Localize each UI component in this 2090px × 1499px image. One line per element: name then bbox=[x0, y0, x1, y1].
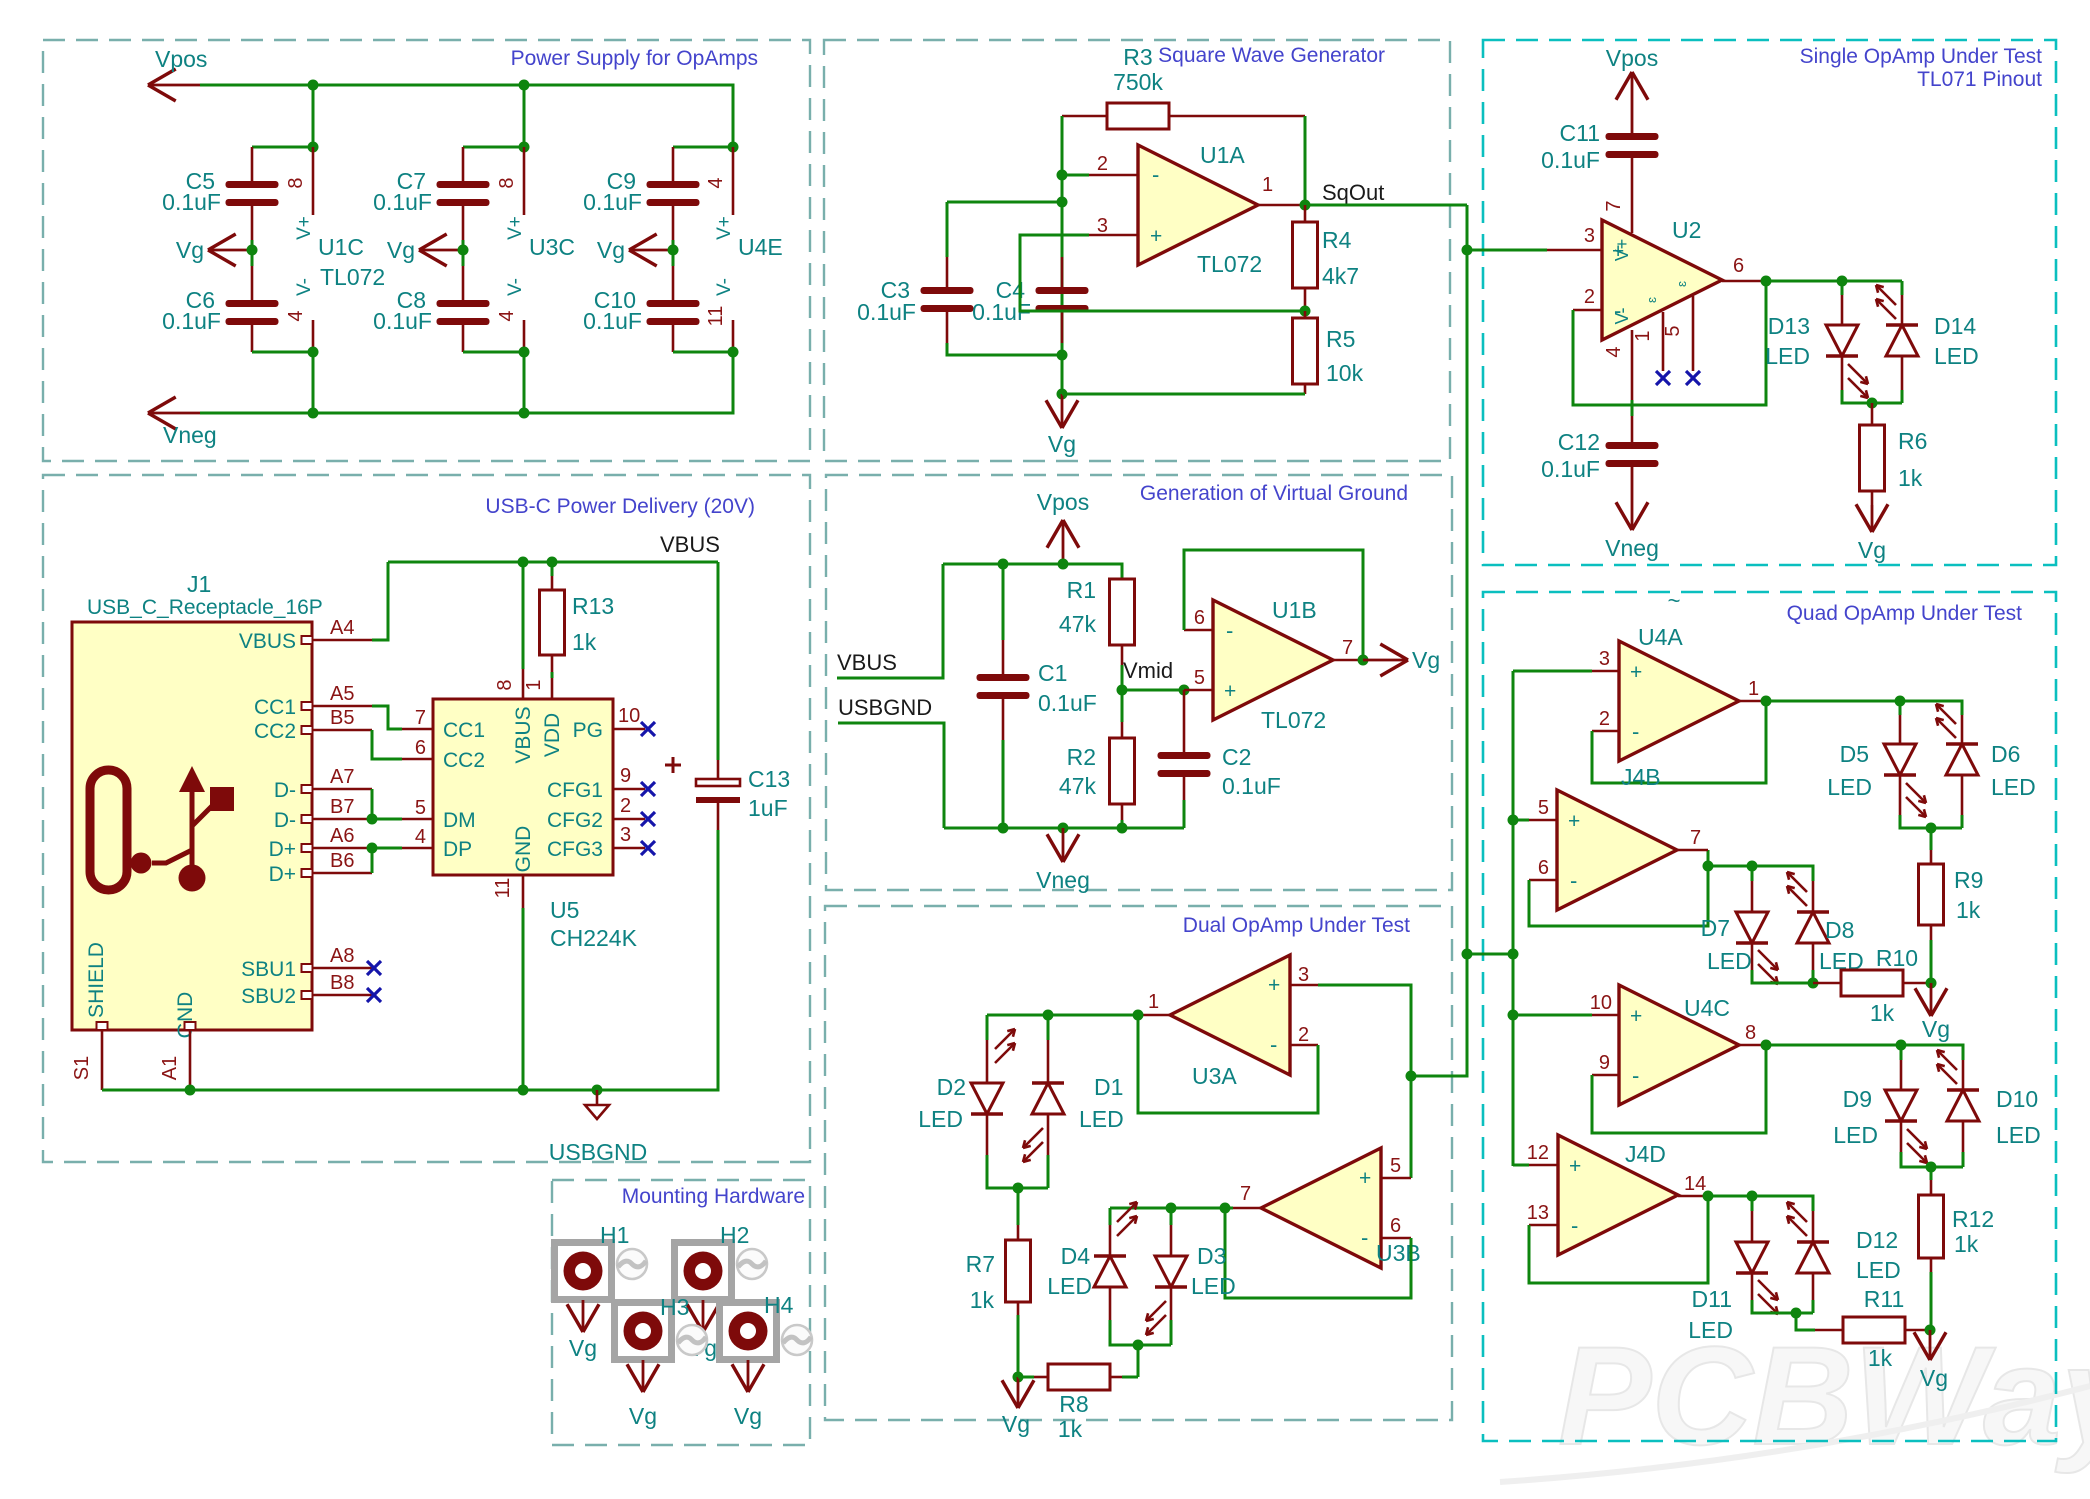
svg-text:7: 7 bbox=[1342, 637, 1353, 659]
pin 8 U4C bbox=[1737, 1022, 1766, 1045]
pin label A6 bbox=[330, 825, 354, 847]
power symbol Vpos (left arrow) bbox=[148, 69, 200, 101]
LED D9 arrows bbox=[1907, 1129, 1927, 1163]
capacitor C8 bbox=[437, 300, 490, 325]
svg-text:Vg: Vg bbox=[176, 237, 204, 263]
pin 4 (V+) U4E bbox=[705, 147, 733, 215]
LED D4 bbox=[1094, 1208, 1126, 1287]
label C11 bbox=[1560, 120, 1601, 146]
svg-text:CC1: CC1 bbox=[254, 696, 296, 719]
svg-text:Mounting Hardware: Mounting Hardware bbox=[622, 1185, 805, 1208]
wire tee to quad vertical bbox=[1467, 953, 1513, 956]
power symbol Vg quad-mid (down arrow) bbox=[1915, 983, 1947, 1016]
svg-text:4: 4 bbox=[415, 826, 426, 848]
capacitor C5 bbox=[226, 147, 279, 206]
junction (1796,1313) bbox=[1791, 1308, 1802, 1319]
pin 1 U2 (offset null) bbox=[1632, 312, 1663, 371]
svg-text:Vneg: Vneg bbox=[163, 422, 217, 448]
svg-text:U1B: U1B bbox=[1272, 597, 1317, 623]
wire pin10 U4C bbox=[1513, 1014, 1619, 1017]
junction (1813,983) bbox=[1808, 978, 1819, 989]
pin 2 U3A bbox=[1290, 1024, 1318, 1046]
svg-text:LED: LED bbox=[1688, 1317, 1733, 1343]
label R10 bbox=[1876, 945, 1918, 971]
pin 3 U2 bbox=[1584, 225, 1595, 247]
junction (673,250) bbox=[668, 245, 679, 256]
wire U5 VBUS drop bbox=[522, 562, 525, 669]
LED D14 bbox=[1886, 295, 1918, 356]
label Vg col2 bbox=[387, 237, 415, 263]
junction (1766,701) bbox=[1761, 696, 1772, 707]
section title: Quad OpAmp Under Test bbox=[1787, 602, 2023, 625]
pin 7 U5 bbox=[415, 707, 426, 729]
section box: USB-C Power Delivery bbox=[43, 475, 810, 1162]
pin A1 (GND) J1 bbox=[159, 1022, 196, 1090]
capacitor C11 bbox=[1606, 133, 1659, 233]
opamp plus U4B bbox=[1568, 810, 1580, 833]
reference U3B bbox=[1376, 1240, 1421, 1266]
op-amp U3B bbox=[1261, 1148, 1381, 1268]
svg-text:H4: H4 bbox=[764, 1292, 794, 1318]
svg-text:J1: J1 bbox=[187, 571, 211, 597]
junction (1872,403) bbox=[1867, 398, 1878, 409]
LED D5 bbox=[1884, 701, 1916, 775]
svg-text:5: 5 bbox=[1538, 797, 1549, 819]
pin 8 (V+) U1C bbox=[285, 147, 313, 215]
opamp minus U4B bbox=[1570, 868, 1577, 893]
svg-text:Single OpAmp Under Test: Single OpAmp Under Test bbox=[1800, 45, 2043, 68]
wire R3 right vertical bbox=[1304, 116, 1307, 205]
value 1k (R11) bbox=[1868, 1345, 1893, 1371]
wire GND drop U5 bbox=[522, 908, 525, 1090]
svg-text:V-: V- bbox=[714, 278, 735, 296]
junction (1122,828) bbox=[1117, 823, 1128, 834]
pin 4 U2 bbox=[1603, 330, 1632, 400]
pin A5 (CC1) J1 bbox=[302, 702, 373, 710]
svg-text:Vg: Vg bbox=[734, 1403, 762, 1429]
wire U1B feedback bbox=[1184, 550, 1363, 660]
wire VBUS rail bbox=[388, 561, 718, 564]
junction (463,250) bbox=[458, 245, 469, 256]
svg-text:D7: D7 bbox=[1701, 915, 1730, 941]
junction (1513,820) bbox=[1508, 815, 1519, 826]
svg-text:Vpos: Vpos bbox=[1606, 45, 1658, 71]
LED D6 arrows bbox=[1936, 704, 1956, 738]
junction (372,819) bbox=[367, 814, 378, 825]
pin name V- U4E bbox=[714, 278, 735, 296]
svg-text:Vg: Vg bbox=[1048, 431, 1076, 457]
pin name CFG3 U5 bbox=[547, 838, 603, 861]
label R1 bbox=[1067, 577, 1096, 603]
section box: Power Supply for OpAmps bbox=[43, 40, 810, 461]
value 0.1uF (C11) bbox=[1541, 147, 1600, 173]
svg-text:LED: LED bbox=[1934, 343, 1979, 369]
svg-text:5: 5 bbox=[1662, 325, 1684, 336]
pin label A8 bbox=[330, 945, 354, 967]
svg-text:U3B: U3B bbox=[1376, 1240, 1421, 1266]
LED D1 arrows bbox=[1023, 1128, 1043, 1162]
svg-text:R12: R12 bbox=[1952, 1206, 1994, 1232]
value LED (D13) bbox=[1765, 343, 1810, 369]
svg-text:LED: LED bbox=[1833, 1122, 1878, 1148]
capacitor C12 bbox=[1606, 416, 1659, 467]
reference U4B bbox=[1621, 764, 1661, 790]
label Vg col3 bbox=[597, 237, 625, 263]
svg-text:CC2: CC2 bbox=[443, 749, 485, 772]
junction (1018,1377) bbox=[1013, 1372, 1024, 1383]
net label SqOut bbox=[1322, 180, 1384, 205]
wire Vpos rail bbox=[200, 85, 733, 147]
value 0.1uF (C12) bbox=[1541, 456, 1600, 482]
wire SqOut to main vertical bbox=[1305, 204, 1467, 207]
label Vneg vg bbox=[1036, 867, 1090, 893]
svg-text:U1A: U1A bbox=[1200, 142, 1245, 168]
svg-text:V-: V- bbox=[1612, 307, 1632, 324]
capacitor C4 bbox=[1036, 202, 1089, 312]
svg-text:D10: D10 bbox=[1996, 1086, 2038, 1112]
LED D8 bbox=[1797, 881, 1829, 943]
power symbol Vpos vg (up arrow) bbox=[1047, 520, 1079, 564]
label Vg quad-bottom bbox=[1920, 1365, 1948, 1391]
label Vneg single bbox=[1605, 535, 1659, 561]
svg-text:4: 4 bbox=[705, 177, 727, 188]
svg-text:Vg: Vg bbox=[1002, 1411, 1030, 1437]
svg-text:1k: 1k bbox=[1956, 897, 1981, 923]
wire cap-top to pin col3 bbox=[673, 146, 733, 149]
label Vg H2 bbox=[689, 1335, 717, 1361]
value 1k (R6) bbox=[1898, 465, 1923, 491]
junction (1842,281) bbox=[1837, 276, 1848, 287]
svg-text:0.1uF: 0.1uF bbox=[1038, 690, 1097, 716]
svg-text:3: 3 bbox=[1584, 225, 1595, 247]
pin name PG U5 bbox=[573, 719, 603, 742]
svg-text:LED: LED bbox=[1765, 343, 1810, 369]
svg-text:3: 3 bbox=[1599, 648, 1610, 670]
power symbol Vg right arrow (U1B out) bbox=[1363, 644, 1408, 676]
svg-text:C1: C1 bbox=[1038, 660, 1067, 686]
junction (1184,690) bbox=[1179, 685, 1190, 696]
capacitor C13 (polarized) bbox=[665, 562, 740, 830]
svg-text:R4: R4 bbox=[1322, 227, 1352, 253]
value TLO72 (U1A) bbox=[1197, 251, 1262, 277]
svg-text:C13: C13 bbox=[748, 766, 790, 792]
svg-text:0.1uF: 0.1uF bbox=[1541, 456, 1600, 482]
pin 3 U4A bbox=[1599, 648, 1610, 670]
svg-text:LED: LED bbox=[1707, 948, 1752, 974]
no-connect X CFG2 bbox=[641, 812, 655, 826]
wire pin3 U2 bbox=[1467, 249, 1602, 252]
pin 5 U5 bbox=[415, 797, 426, 819]
svg-text:CFG3: CFG3 bbox=[547, 838, 603, 861]
svg-text:U1C: U1C bbox=[318, 234, 364, 260]
junction (1138,1015) bbox=[1133, 1010, 1144, 1021]
LED D5 arrows bbox=[1906, 783, 1926, 817]
svg-text:R5: R5 bbox=[1326, 326, 1355, 352]
wire U3A out rail bbox=[987, 1014, 1138, 1017]
junction (252,250) bbox=[247, 245, 258, 256]
pin name SBU1 J1 bbox=[241, 958, 296, 981]
reference J1 bbox=[187, 571, 211, 597]
junction (1901,1045) bbox=[1896, 1040, 1907, 1051]
svg-text:1k: 1k bbox=[572, 629, 597, 655]
reference U4D bbox=[1625, 1141, 1666, 1167]
value LED (D10) bbox=[1996, 1122, 2041, 1148]
connector J1 body bbox=[72, 622, 312, 1030]
svg-text:1k: 1k bbox=[1058, 1416, 1083, 1442]
svg-text:LED: LED bbox=[1991, 774, 2036, 800]
svg-text:2: 2 bbox=[1584, 286, 1595, 308]
svg-text:1: 1 bbox=[1262, 174, 1273, 196]
label R2 bbox=[1067, 744, 1096, 770]
power symbol Vneg vg (down arrow) bbox=[1047, 828, 1079, 862]
wire U4B feedback bbox=[1529, 850, 1708, 926]
junction (1003,828) bbox=[998, 823, 1009, 834]
pin 13 U4D bbox=[1527, 1202, 1558, 1225]
pin name D- J1 bbox=[274, 809, 296, 832]
pin B6 (D+) J1 bbox=[302, 869, 373, 877]
svg-text:12: 12 bbox=[1527, 1142, 1549, 1164]
svg-text:C11: C11 bbox=[1560, 120, 1601, 146]
junction (733,147) bbox=[728, 142, 739, 153]
label H3 bbox=[660, 1294, 689, 1320]
wire U4A feedback bbox=[1592, 701, 1766, 783]
svg-text:D14: D14 bbox=[1934, 313, 1976, 339]
svg-text:D5: D5 bbox=[1840, 741, 1869, 767]
value 1k (R13) bbox=[572, 629, 597, 655]
svg-text:VBUS: VBUS bbox=[512, 706, 535, 763]
svg-text:U4A: U4A bbox=[1638, 624, 1683, 650]
reference U1B bbox=[1272, 597, 1317, 623]
pin name VBUS J1 bbox=[239, 630, 296, 653]
wire U4C feedback bbox=[1592, 1045, 1766, 1133]
reference U1A bbox=[1200, 142, 1245, 168]
svg-text:SBU1: SBU1 bbox=[241, 958, 296, 981]
value 0.1uF (C4) bbox=[972, 299, 1031, 325]
value TLO72 (U1C) bbox=[320, 264, 385, 290]
svg-text:-: - bbox=[1361, 1225, 1368, 1250]
label C2 bbox=[1222, 744, 1251, 770]
net label VBUS vg bbox=[837, 650, 897, 675]
pin name VDD U5 bbox=[541, 713, 564, 757]
junction (1752,1196) bbox=[1747, 1191, 1758, 1202]
svg-text:1: 1 bbox=[1748, 678, 1759, 700]
svg-text:11: 11 bbox=[705, 306, 727, 327]
capacitor C9 bbox=[647, 147, 700, 206]
wire pin3 U1A bbox=[1020, 235, 1305, 311]
value LED (D4) bbox=[1047, 1273, 1092, 1299]
wire main SqOut vertical bbox=[1466, 205, 1469, 1076]
junction (524,147) bbox=[519, 142, 530, 153]
pin 3 U3A bbox=[1290, 964, 1318, 986]
svg-text:D-: D- bbox=[274, 779, 296, 802]
opamp minus U3B bbox=[1361, 1225, 1368, 1250]
value LED (D11) bbox=[1688, 1317, 1733, 1343]
pin name CC1 J1 bbox=[254, 696, 296, 719]
wire R3 left vertical bbox=[1061, 116, 1064, 355]
reference U1C bbox=[318, 234, 364, 260]
pin name GND J1 bbox=[174, 992, 197, 1039]
LED D11 bbox=[1736, 1196, 1768, 1273]
svg-text:2: 2 bbox=[620, 795, 631, 817]
svg-text:+: + bbox=[1568, 810, 1580, 833]
svg-text:-: - bbox=[1571, 1213, 1578, 1238]
svg-text:D+: D+ bbox=[269, 863, 296, 886]
svg-text:VBUS: VBUS bbox=[239, 630, 296, 653]
pin label B7 bbox=[330, 796, 354, 818]
wire U2 out to LEDs bbox=[1766, 281, 1902, 295]
svg-text:Vg: Vg bbox=[597, 237, 625, 263]
svg-text:1k: 1k bbox=[970, 1287, 995, 1313]
svg-text:R10: R10 bbox=[1876, 945, 1918, 971]
svg-text:0.1uF: 0.1uF bbox=[373, 189, 432, 215]
svg-text:GND: GND bbox=[512, 826, 535, 873]
value LED (D6) bbox=[1991, 774, 2036, 800]
value 750k (R3) bbox=[1113, 69, 1163, 95]
wire U3A feedback bbox=[1138, 1015, 1318, 1113]
svg-text:+: + bbox=[1569, 1155, 1581, 1178]
svg-text:-: - bbox=[1570, 868, 1577, 893]
pin 6 U3B bbox=[1381, 1215, 1411, 1238]
wire DM to U5 bbox=[372, 818, 433, 821]
mounting hole H3 alt circle bbox=[677, 1325, 707, 1355]
capacitor C7 bbox=[437, 147, 490, 206]
wire quad distribution vertical bbox=[1512, 671, 1515, 1166]
pin name D+ J1 bbox=[269, 838, 296, 861]
op-amp U1A bbox=[1138, 145, 1258, 265]
section title: Mounting Hardware bbox=[622, 1185, 805, 1208]
label Vpos bbox=[155, 46, 207, 72]
svg-text:1: 1 bbox=[523, 679, 545, 690]
power symbol Vneg (left arrow) bbox=[148, 397, 200, 429]
svg-text:+: + bbox=[1630, 661, 1642, 684]
svg-text:V-: V- bbox=[505, 278, 526, 296]
pin 3 U5 (CFG3) bbox=[613, 824, 645, 848]
svg-text:V+: V+ bbox=[505, 216, 526, 240]
svg-text:LED: LED bbox=[918, 1106, 963, 1132]
label D9 bbox=[1843, 1086, 1872, 1112]
wire Vg to C10 bbox=[672, 206, 675, 300]
label C4 bbox=[996, 277, 1026, 303]
svg-text:0.1uF: 0.1uF bbox=[583, 189, 642, 215]
junction (1467,250) bbox=[1462, 245, 1473, 256]
svg-text:CC2: CC2 bbox=[254, 720, 296, 743]
svg-text:6: 6 bbox=[1538, 857, 1549, 879]
junction (1305,311) bbox=[1300, 306, 1311, 317]
pin label B8 bbox=[330, 972, 354, 994]
opamp plus U3B bbox=[1359, 1167, 1371, 1190]
svg-text:9: 9 bbox=[620, 765, 631, 787]
power symbol Vpos single (up arrow) bbox=[1616, 72, 1648, 133]
opamp plus U4D bbox=[1569, 1155, 1581, 1178]
svg-text:1k: 1k bbox=[1954, 1231, 1979, 1257]
svg-text:4: 4 bbox=[285, 310, 307, 321]
opamp minus U4A bbox=[1632, 719, 1639, 744]
pin 7 U1B bbox=[1331, 637, 1363, 660]
reference U4A bbox=[1638, 624, 1683, 650]
pin 7 U2 bbox=[1603, 200, 1625, 211]
label Vg U1B bbox=[1412, 647, 1440, 673]
wire dual to main vertical bbox=[1411, 954, 1467, 1076]
svg-text:6: 6 bbox=[1194, 607, 1205, 629]
resistor R11 bbox=[1815, 1317, 1930, 1343]
label D11 bbox=[1692, 1286, 1733, 1312]
wire D+ bridge bbox=[371, 848, 374, 873]
pin name V- U1C bbox=[294, 278, 315, 296]
wire U3B feedback bbox=[1225, 1208, 1411, 1298]
wire top rail vg bbox=[943, 564, 1122, 579]
wire C10 bottom bbox=[673, 322, 733, 352]
pin label A4 bbox=[330, 617, 354, 639]
label C5 bbox=[186, 168, 215, 194]
junction (1931,828) bbox=[1926, 823, 1937, 834]
svg-text:U5: U5 bbox=[550, 897, 579, 923]
label Vg H4 bbox=[734, 1403, 762, 1429]
power symbol Vg quad-bottom (down arrow) bbox=[1914, 1330, 1946, 1360]
LED D12 arrows bbox=[1787, 1202, 1807, 1236]
label D7 bbox=[1701, 915, 1730, 941]
svg-text:D9: D9 bbox=[1843, 1086, 1872, 1112]
svg-text:V-: V- bbox=[294, 278, 315, 296]
op-amp U1B bbox=[1213, 600, 1333, 720]
pin 5 U4B bbox=[1538, 797, 1549, 819]
pin 2 U2 bbox=[1573, 286, 1602, 310]
svg-text:R9: R9 bbox=[1954, 867, 1983, 893]
junction (1048,1015) bbox=[1043, 1010, 1054, 1021]
svg-text:Vg: Vg bbox=[1920, 1365, 1948, 1391]
svg-text:SHIELD: SHIELD bbox=[85, 942, 108, 1018]
opamp plus U1A bbox=[1150, 225, 1162, 248]
LED D13 bbox=[1826, 281, 1858, 356]
wire C3 top bbox=[947, 202, 1062, 287]
power symbol Vg col3 (left arrow) bbox=[629, 234, 673, 266]
value LED (D14) bbox=[1934, 343, 1979, 369]
svg-text:-: - bbox=[1270, 1032, 1277, 1057]
wire DP to U5 bbox=[372, 847, 433, 850]
reference U2 bbox=[1672, 217, 1701, 243]
svg-text:CFG1: CFG1 bbox=[547, 779, 603, 802]
pin name CC1 U5 bbox=[443, 719, 485, 742]
pin name N1 U2 bbox=[1644, 297, 1659, 303]
svg-text:3: 3 bbox=[620, 824, 631, 846]
op-amp U4B bbox=[1557, 790, 1677, 910]
svg-text:0.1uF: 0.1uF bbox=[162, 308, 221, 334]
junction (1467,954) bbox=[1462, 949, 1473, 960]
svg-text:CFG2: CFG2 bbox=[547, 809, 603, 832]
svg-text:1k: 1k bbox=[1898, 465, 1923, 491]
power symbol Vg H1 (down arrow) bbox=[567, 1300, 599, 1332]
svg-text:-: - bbox=[1632, 719, 1639, 744]
wire C4 bottom bbox=[1061, 310, 1064, 355]
opamp plus U2 bbox=[1612, 240, 1624, 263]
op-amp U4C bbox=[1619, 985, 1739, 1105]
LED D7 arrows bbox=[1758, 950, 1778, 984]
value LED (D8) bbox=[1819, 948, 1864, 974]
label H4 bbox=[764, 1292, 794, 1318]
value LED (D1) bbox=[1079, 1106, 1124, 1132]
label Vg sqwave bbox=[1048, 431, 1076, 457]
svg-text:USB_C_Receptacle_16P: USB_C_Receptacle_16P bbox=[87, 596, 323, 619]
value 47k (R1) bbox=[1059, 611, 1097, 637]
LED D6 bbox=[1946, 715, 1978, 775]
wire col2 to Vneg rail bbox=[523, 352, 526, 413]
svg-text:D4: D4 bbox=[1061, 1243, 1091, 1269]
LED D7 bbox=[1736, 866, 1768, 943]
pin name N2 U2 bbox=[1674, 281, 1689, 287]
pin 1 U1A bbox=[1258, 174, 1305, 205]
wire D1/D2 bottom bbox=[987, 1114, 1048, 1188]
pin name V+ U3C bbox=[505, 216, 526, 240]
pin name SBU2 J1 bbox=[241, 985, 296, 1008]
